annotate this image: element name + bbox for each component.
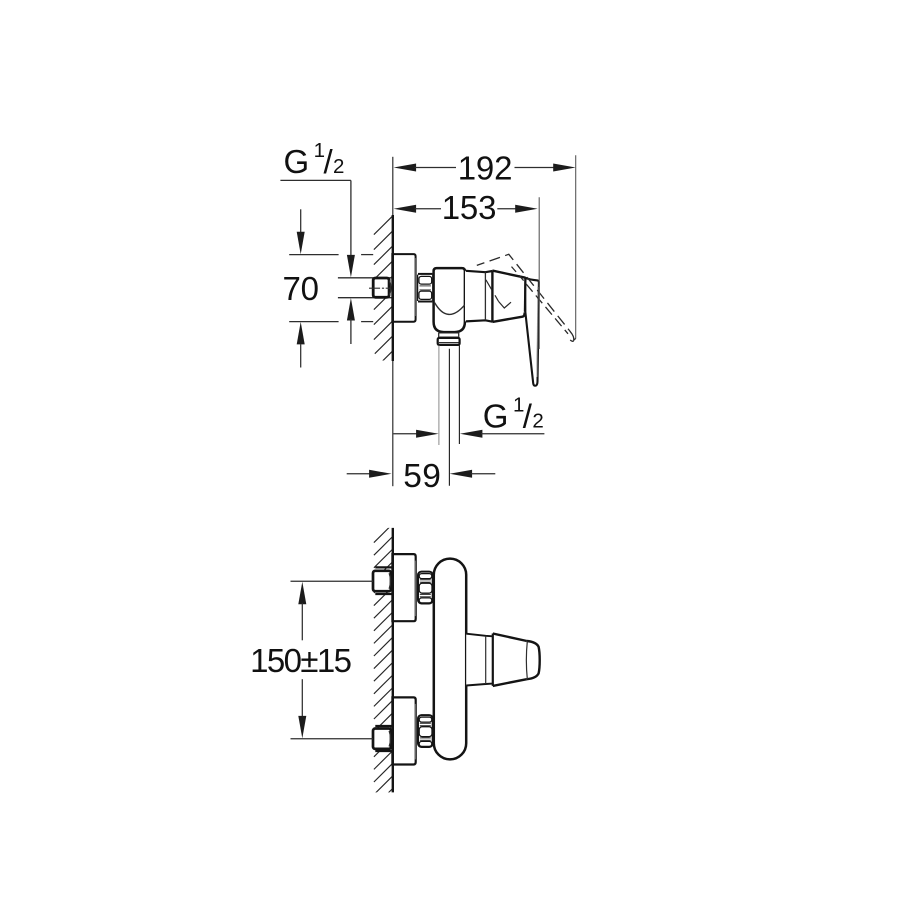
svg-text:59: 59 xyxy=(403,458,441,495)
svg-text:150±15: 150±15 xyxy=(250,642,351,679)
svg-text:192: 192 xyxy=(458,149,512,186)
svg-text:153: 153 xyxy=(442,189,496,226)
svg-text:70: 70 xyxy=(283,270,319,307)
